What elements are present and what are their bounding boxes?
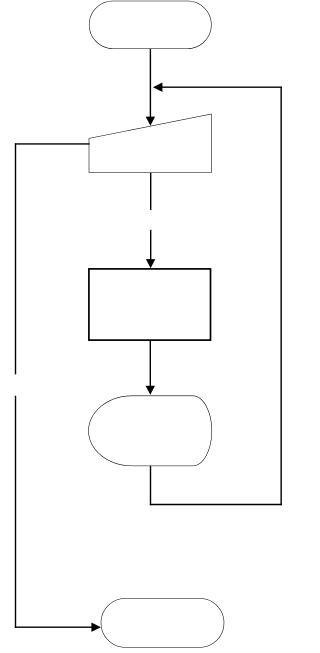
left return line: vertical lower segment [15, 396, 17, 628]
wire: feedback horizontal into main line [162, 86, 283, 88]
delay shape [89, 396, 212, 466]
arrowhead into bottom stadium [91, 623, 101, 632]
arrowhead into manual-input [146, 117, 155, 126]
wire: right feedback vertical [280, 87, 282, 506]
wire: delay bottom down to feedback [150, 466, 152, 505]
arrowhead pointing left [153, 83, 163, 92]
left return line: bottom horizontal to stadium [15, 626, 92, 628]
process (rectangle) [89, 269, 211, 340]
wire: dashed connector segment 2 [150, 230, 152, 260]
left return line: horizontal from trapezoid [15, 143, 90, 145]
arrowhead into process [146, 259, 155, 268]
manual input (trapezoid) [89, 114, 211, 173]
terminator (top stadium) [89, 1, 211, 49]
arrowhead into delay [146, 386, 155, 395]
terminator (bottom stadium) [101, 598, 224, 647]
wire: bottom feedback horizontal [150, 504, 282, 506]
left return line: vertical upper segment [15, 143, 17, 374]
wire: stadium to manual-input [149, 49, 151, 117]
wire: dashed connector manual-input to process (segment 1) [150, 173, 152, 211]
wire: process to delay [149, 340, 151, 386]
